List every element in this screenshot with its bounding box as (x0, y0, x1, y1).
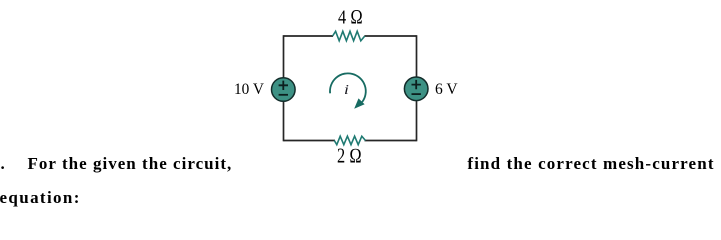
wire left lower (283, 101, 285, 141)
label i mesh current (344, 83, 349, 99)
text line2 (0, 188, 81, 208)
resistor R2 2ohm zigzag (334, 136, 365, 145)
V1 plus sign (279, 81, 288, 90)
V1 minus sign (279, 94, 288, 96)
label 10 V (234, 81, 264, 99)
text line1 left (28, 154, 233, 174)
label 2 ohm (337, 146, 362, 169)
wire right upper (416, 35, 418, 77)
label 6 V (435, 81, 458, 99)
wire bottom-left segment (284, 140, 336, 142)
V2 plus sign (412, 80, 421, 89)
wire right lower (416, 101, 418, 142)
resistor R1 4ohm zigzag (333, 31, 365, 41)
V2 minus sign (412, 93, 421, 95)
mesh current arrowhead (354, 98, 364, 108)
label 4 ohm (338, 7, 363, 30)
wire bottom-right segment (365, 140, 417, 142)
text line1 period (1, 154, 5, 174)
wire left upper (283, 35, 285, 78)
voltage source V2 6V circle (404, 77, 428, 101)
wire top-left segment (284, 35, 334, 37)
text line1 right (467, 154, 714, 174)
mesh current arc (330, 73, 366, 102)
voltage source V1 10V circle (272, 78, 296, 102)
wire top-right segment (365, 35, 417, 37)
